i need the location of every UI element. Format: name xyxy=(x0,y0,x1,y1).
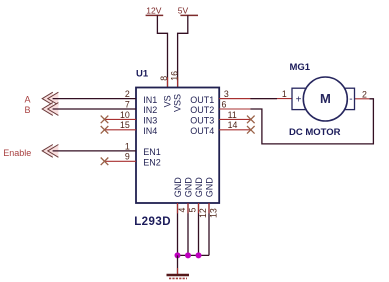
ground stub red xyxy=(177,268,179,274)
svg-text:A: A xyxy=(25,94,31,104)
GND pin 4 stub xyxy=(177,203,179,213)
svg-text:15: 15 xyxy=(120,120,130,130)
pin 14 stub no-connect xyxy=(219,129,250,131)
IC U1 body L293D xyxy=(136,88,219,204)
power terminal 5V bar xyxy=(180,14,198,16)
wire OUT1 middle dark segment xyxy=(250,98,277,100)
svg-text:16: 16 xyxy=(169,71,179,81)
motor terminal plus rect xyxy=(292,88,306,109)
motor terminal minus rect xyxy=(341,88,355,109)
svg-text:OUT1: OUT1 xyxy=(190,95,214,105)
GND pin 5 wire xyxy=(187,203,189,255)
wire 12V to pin 8 xyxy=(157,15,167,87)
svg-text:L293D: L293D xyxy=(134,216,171,228)
GND pin 4 wire xyxy=(177,203,179,255)
svg-text:2: 2 xyxy=(362,89,367,99)
svg-text:VSS: VSS xyxy=(173,94,183,112)
wire Enable to pin 1 xyxy=(53,150,136,152)
pin 15 stub no-connect xyxy=(105,129,137,131)
svg-text:+: + xyxy=(296,95,302,106)
svg-text:IN1: IN1 xyxy=(143,95,157,105)
svg-text:B: B xyxy=(25,105,31,115)
svg-text:MG1: MG1 xyxy=(290,62,311,73)
GND pin 12 stub xyxy=(198,203,200,213)
svg-text:12V: 12V xyxy=(146,5,161,15)
motor pin 2 stub xyxy=(355,98,370,100)
svg-text:OUT4: OUT4 xyxy=(190,126,214,136)
svg-text:13: 13 xyxy=(208,208,218,218)
wire B to pin 7 xyxy=(53,108,136,110)
GND pin 13 wire xyxy=(208,203,210,255)
GND pin 5 stub xyxy=(187,203,189,213)
no-connect X pin 11 xyxy=(247,116,255,124)
ground bus wire xyxy=(178,254,210,256)
pin 9 stub no-connect xyxy=(105,160,137,162)
svg-text:VS: VS xyxy=(162,95,172,107)
svg-text:14: 14 xyxy=(228,120,238,130)
pin 16 stub xyxy=(177,77,179,87)
ground bar xyxy=(167,274,190,276)
svg-text:EN2: EN2 xyxy=(143,158,161,168)
svg-text:M: M xyxy=(320,91,331,106)
svg-text:1: 1 xyxy=(125,141,130,151)
junction dot 1 xyxy=(175,252,181,258)
svg-text:GND: GND xyxy=(194,177,204,198)
wire OUT1 to motor xyxy=(219,98,292,100)
wire 5V to pin 16 xyxy=(178,15,188,87)
svg-text:6: 6 xyxy=(222,99,227,109)
svg-text:5V: 5V xyxy=(178,5,189,15)
no-connect X pin 15 xyxy=(101,126,109,134)
svg-text:11: 11 xyxy=(228,110,237,120)
terminal B chevron xyxy=(42,103,58,116)
svg-text:GND: GND xyxy=(173,177,183,198)
svg-text:GND: GND xyxy=(204,177,214,198)
svg-text:Enable: Enable xyxy=(3,148,31,158)
motor body circle xyxy=(303,77,347,121)
GND pin 13 stub xyxy=(208,203,210,213)
svg-text:OUT2: OUT2 xyxy=(190,105,214,115)
svg-text:GND: GND xyxy=(183,177,193,198)
svg-text:9: 9 xyxy=(125,152,130,162)
pin 8 stub xyxy=(167,77,169,87)
svg-text:DC MOTOR: DC MOTOR xyxy=(289,127,341,138)
no-connect X pin 14 xyxy=(247,126,255,134)
svg-text:EN1: EN1 xyxy=(143,147,161,157)
terminal A chevron xyxy=(42,92,58,105)
wire to ground xyxy=(177,255,179,274)
GND pin 12 wire xyxy=(198,203,200,255)
svg-text:IN2: IN2 xyxy=(143,105,157,115)
svg-text:IN3: IN3 xyxy=(143,116,157,126)
svg-text:12: 12 xyxy=(198,208,208,218)
wire OUT2 loop to motor minus xyxy=(250,99,373,144)
svg-text:5: 5 xyxy=(187,208,197,213)
wire A to pin 2 xyxy=(53,98,136,100)
pin 3 stub xyxy=(219,98,250,100)
power terminal 12V bar xyxy=(146,14,164,16)
junction dot 3 xyxy=(196,252,202,258)
svg-text:10: 10 xyxy=(120,110,130,120)
ground hatch xyxy=(169,277,187,279)
svg-text:-: - xyxy=(349,94,352,105)
svg-text:1: 1 xyxy=(282,89,287,99)
svg-text:IN4: IN4 xyxy=(143,126,157,136)
pin 6 stub xyxy=(219,108,250,110)
junction dot 2 xyxy=(185,252,191,258)
svg-text:U1: U1 xyxy=(136,69,149,80)
terminal Enable chevron xyxy=(42,145,58,158)
no-connect X pin 10 xyxy=(101,116,109,124)
svg-text:2: 2 xyxy=(125,89,130,99)
svg-text:4: 4 xyxy=(177,208,187,213)
pin 10 stub no-connect xyxy=(105,118,137,120)
svg-text:OUT3: OUT3 xyxy=(190,116,214,126)
no-connect X pin 9 xyxy=(101,158,109,166)
svg-text:7: 7 xyxy=(125,99,130,109)
svg-text:8: 8 xyxy=(159,76,169,81)
svg-text:3: 3 xyxy=(224,89,229,99)
pin 11 stub no-connect xyxy=(219,118,250,120)
